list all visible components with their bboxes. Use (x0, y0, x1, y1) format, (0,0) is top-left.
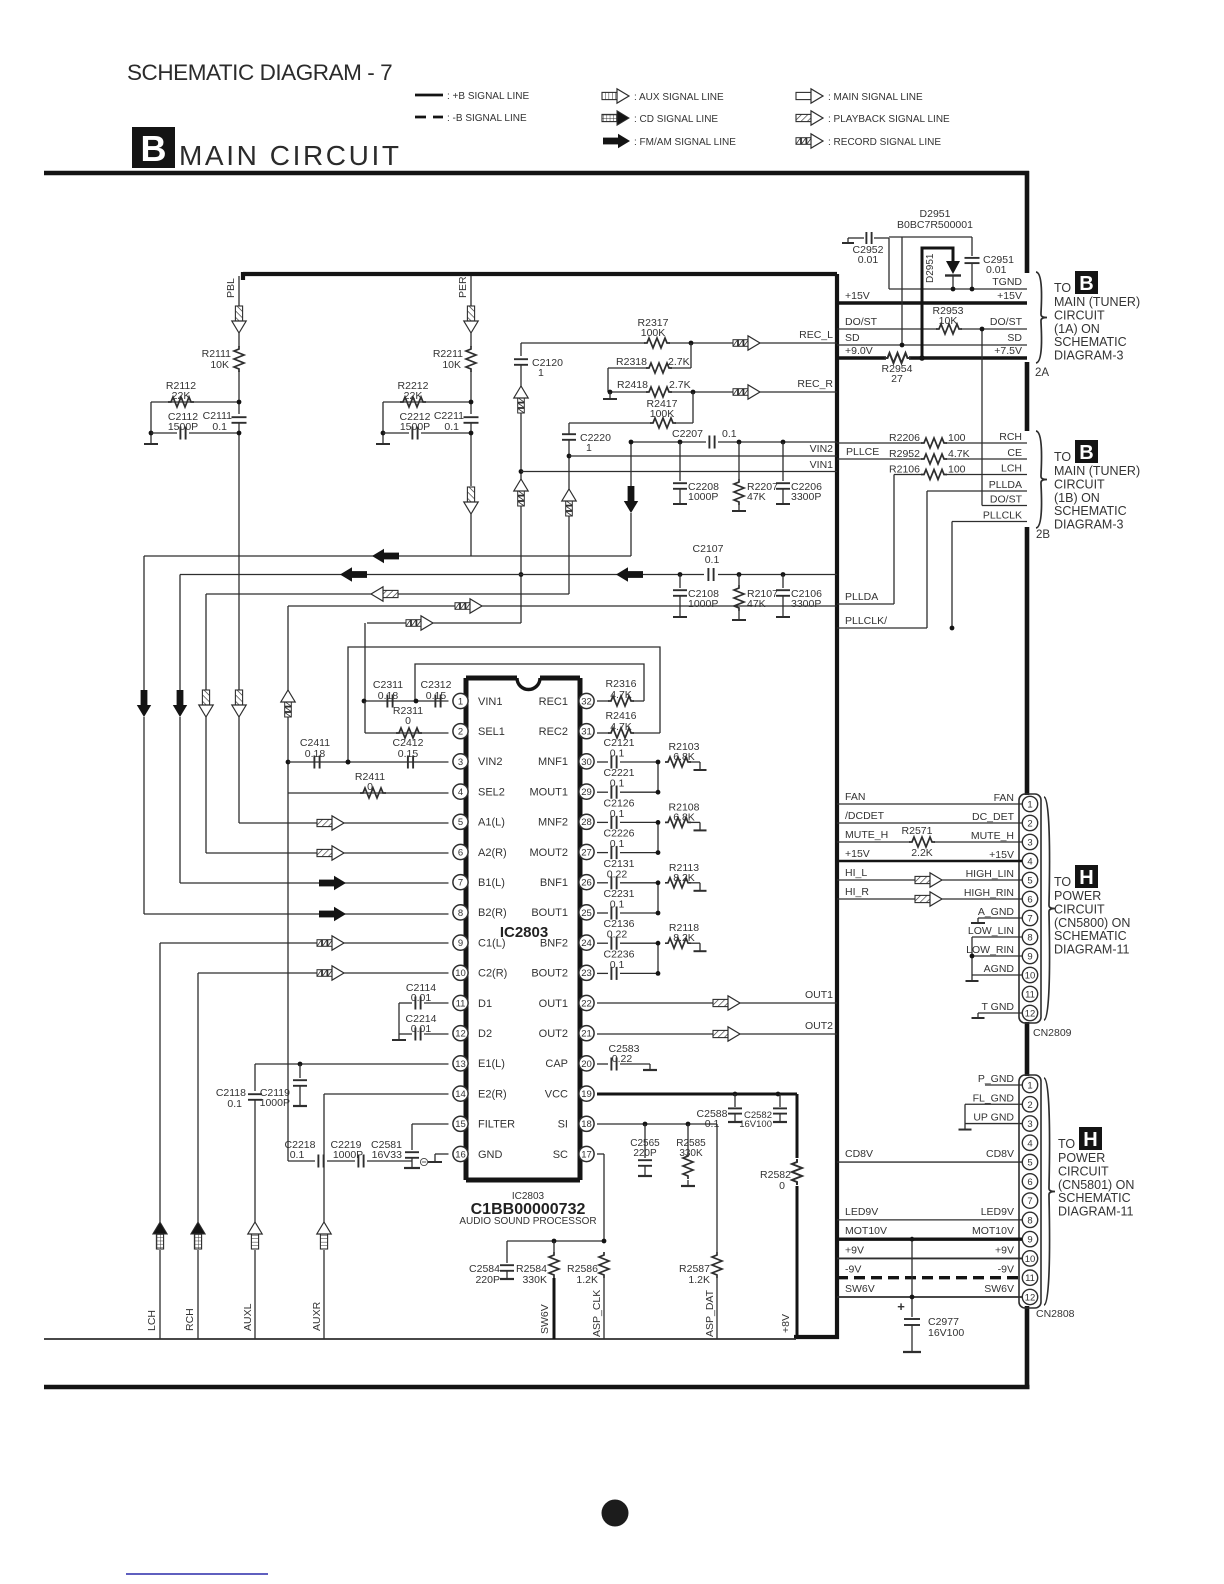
svg-text:SW6V: SW6V (984, 1283, 1014, 1295)
svg-text:R2952: R2952 (889, 448, 920, 460)
svg-text:9: 9 (1027, 952, 1032, 963)
svg-text:4.7K: 4.7K (948, 448, 970, 460)
svg-text:PLLDA: PLLDA (989, 479, 1022, 491)
svg-text:B: B (1079, 273, 1093, 295)
svg-text:DO/ST: DO/ST (845, 316, 878, 328)
svg-text:+7.5V: +7.5V (994, 345, 1022, 357)
svg-text:14: 14 (455, 1089, 466, 1100)
svg-text:2.7K: 2.7K (668, 356, 690, 368)
svg-text:18: 18 (581, 1119, 592, 1130)
svg-text:-9V: -9V (845, 1264, 861, 1276)
svg-text:3: 3 (1027, 1119, 1032, 1130)
svg-text:0.01: 0.01 (986, 264, 1007, 276)
svg-text:SCHEMATIC: SCHEMATIC (1054, 929, 1127, 943)
svg-text:1500P: 1500P (168, 421, 198, 433)
svg-text:1: 1 (586, 442, 592, 454)
svg-text:+15V: +15V (989, 849, 1014, 861)
svg-text:47K: 47K (747, 598, 766, 610)
svg-text:H: H (1083, 1129, 1097, 1151)
svg-text:17: 17 (581, 1149, 592, 1160)
svg-text:VIN2: VIN2 (810, 443, 834, 455)
svg-text:10: 10 (1025, 971, 1036, 982)
svg-text:10K: 10K (210, 359, 229, 371)
svg-text:10: 10 (1025, 1254, 1036, 1265)
svg-text:0: 0 (405, 715, 411, 727)
svg-text:0.1: 0.1 (290, 1149, 305, 1161)
svg-text:HI_L: HI_L (845, 867, 867, 879)
svg-text:ASP_CLK: ASP_CLK (591, 1290, 603, 1337)
svg-text:20: 20 (581, 1059, 592, 1070)
svg-text:100: 100 (948, 464, 966, 476)
svg-text:0.1: 0.1 (444, 421, 459, 433)
svg-text:BNF1: BNF1 (540, 877, 568, 889)
svg-text:22K: 22K (172, 390, 191, 402)
svg-text:TO: TO (1058, 1137, 1075, 1151)
svg-text:(1A) ON: (1A) ON (1054, 322, 1100, 336)
svg-text:PBL: PBL (225, 278, 237, 298)
svg-text:AGND: AGND (984, 963, 1015, 975)
svg-text:15: 15 (455, 1119, 466, 1130)
svg-text:16: 16 (455, 1149, 466, 1160)
svg-text:0.1: 0.1 (722, 428, 737, 440)
svg-text:SI: SI (558, 1119, 568, 1131)
svg-text:23: 23 (581, 968, 592, 979)
svg-text:31: 31 (581, 727, 592, 738)
svg-text:1: 1 (538, 367, 544, 379)
svg-text:MOT10V: MOT10V (972, 1225, 1014, 1237)
svg-text:/DCDET: /DCDET (845, 810, 885, 822)
svg-text:CN2809: CN2809 (1033, 1027, 1072, 1039)
svg-text:2A: 2A (1035, 367, 1049, 379)
svg-text:AUXL: AUXL (242, 1303, 254, 1331)
svg-text:0.01: 0.01 (411, 992, 432, 1004)
svg-text:0.18: 0.18 (305, 748, 326, 760)
svg-text:27: 27 (891, 373, 903, 385)
svg-text:0.1: 0.1 (610, 748, 625, 760)
svg-text:: MAIN SIGNAL LINE: : MAIN SIGNAL LINE (828, 92, 923, 103)
svg-text:220P: 220P (475, 1274, 500, 1286)
svg-text:PLLDA: PLLDA (845, 591, 878, 603)
svg-text:0.1: 0.1 (705, 554, 720, 566)
svg-text:SEL1: SEL1 (478, 726, 505, 738)
svg-text:330K: 330K (522, 1274, 547, 1286)
svg-text:10K: 10K (442, 359, 461, 371)
svg-text:DC_DET: DC_DET (972, 811, 1015, 823)
svg-text:MUTE_H: MUTE_H (845, 829, 888, 841)
svg-text:2.7K: 2.7K (669, 379, 691, 391)
svg-text:1: 1 (458, 696, 463, 707)
svg-text:BOUT2: BOUT2 (531, 968, 568, 980)
svg-text:POWER: POWER (1054, 889, 1101, 903)
svg-text:4: 4 (458, 787, 463, 798)
svg-text:R2106: R2106 (889, 464, 920, 476)
svg-text:LED9V: LED9V (845, 1206, 878, 1218)
svg-text:HIGH_RIN: HIGH_RIN (964, 887, 1014, 899)
svg-text:1000P: 1000P (333, 1149, 363, 1161)
svg-text:CE: CE (1007, 447, 1022, 459)
svg-text:2B: 2B (1036, 529, 1050, 541)
svg-text:CN2808: CN2808 (1036, 1308, 1075, 1320)
svg-text:C2207: C2207 (672, 428, 703, 440)
svg-text:1.2K: 1.2K (576, 1274, 598, 1286)
svg-text:PER: PER (457, 276, 469, 298)
svg-text:0.1: 0.1 (610, 959, 625, 971)
svg-text:RCH: RCH (184, 1308, 196, 1331)
svg-text:1.2K: 1.2K (688, 1274, 710, 1286)
svg-text:2.2K: 2.2K (911, 847, 933, 859)
svg-text:R2571: R2571 (902, 825, 933, 837)
svg-text:: FM/AM SIGNAL LINE: : FM/AM SIGNAL LINE (634, 137, 736, 148)
svg-text:LCH: LCH (146, 1310, 158, 1331)
svg-text:BNF2: BNF2 (540, 937, 568, 949)
svg-text:OUT2: OUT2 (805, 1020, 833, 1032)
svg-text:28: 28 (581, 817, 592, 828)
svg-text:SEL2: SEL2 (478, 786, 505, 798)
svg-text:REC1: REC1 (539, 696, 568, 708)
svg-text:0.1: 0.1 (610, 899, 625, 911)
svg-text:B: B (141, 128, 167, 169)
svg-text:32: 32 (581, 696, 592, 707)
svg-text:FL_GND: FL_GND (973, 1092, 1015, 1104)
svg-text:R2318: R2318 (616, 356, 647, 368)
svg-text:DIAGRAM-3: DIAGRAM-3 (1054, 518, 1124, 532)
svg-text:UP GND: UP GND (973, 1112, 1014, 1124)
svg-text:220P: 220P (633, 1148, 657, 1159)
svg-text:MAIN CIRCUIT: MAIN CIRCUIT (179, 140, 402, 171)
svg-text:FAN: FAN (994, 792, 1014, 804)
svg-text:CD8V: CD8V (845, 1148, 873, 1160)
svg-text:TO: TO (1054, 875, 1071, 889)
svg-text:PLLCLK/: PLLCLK/ (845, 615, 887, 627)
svg-text:CAP: CAP (545, 1058, 568, 1070)
svg-text:R2582: R2582 (760, 1169, 791, 1181)
svg-text:FILTER: FILTER (478, 1119, 515, 1131)
svg-text:SW6V: SW6V (845, 1283, 875, 1295)
svg-text:T GND: T GND (982, 1001, 1015, 1013)
svg-text:TGND: TGND (992, 276, 1022, 288)
svg-text:2: 2 (458, 727, 463, 738)
svg-text:DIAGRAM-3: DIAGRAM-3 (1054, 349, 1124, 363)
svg-text:+15V: +15V (997, 290, 1022, 302)
svg-text:1000P: 1000P (260, 1097, 290, 1109)
svg-text:MUTE_H: MUTE_H (971, 830, 1014, 842)
svg-text:SCHEMATIC: SCHEMATIC (1054, 335, 1127, 349)
svg-text:REC_R: REC_R (797, 378, 833, 390)
svg-text:P_GND: P_GND (978, 1073, 1015, 1085)
svg-text:0.01: 0.01 (858, 254, 879, 266)
svg-text:D2951: D2951 (925, 253, 936, 283)
svg-text:POWER: POWER (1058, 1151, 1105, 1165)
svg-text:B0BC7R500001: B0BC7R500001 (897, 219, 973, 231)
svg-text:1000P: 1000P (688, 491, 718, 503)
svg-text:+: + (897, 1299, 905, 1314)
svg-text:0.01: 0.01 (411, 1023, 432, 1035)
svg-text:C2220: C2220 (580, 432, 611, 444)
svg-text:SCHEMATIC: SCHEMATIC (1058, 1191, 1131, 1205)
svg-text:6.8K: 6.8K (673, 811, 695, 823)
svg-text:2: 2 (1027, 819, 1032, 830)
svg-text:GND: GND (478, 1149, 503, 1161)
svg-text:4: 4 (1027, 857, 1032, 868)
svg-text:13: 13 (455, 1059, 466, 1070)
svg-text:0: 0 (367, 781, 373, 793)
svg-text:AUXR: AUXR (311, 1301, 323, 1331)
svg-text:LCH: LCH (1001, 463, 1022, 475)
svg-text:25: 25 (581, 908, 592, 919)
svg-text:PLLCE: PLLCE (846, 446, 879, 458)
svg-text:: AUX SIGNAL LINE: : AUX SIGNAL LINE (634, 92, 724, 103)
svg-text:1: 1 (1027, 800, 1032, 811)
svg-text:+9V: +9V (995, 1244, 1014, 1256)
svg-text:24: 24 (581, 938, 592, 949)
svg-text:4.7K: 4.7K (610, 721, 632, 733)
svg-text:19: 19 (581, 1089, 592, 1100)
svg-text:27: 27 (581, 847, 592, 858)
svg-text:100K: 100K (641, 327, 666, 339)
svg-text:: PLAYBACK SIGNAL LINE: : PLAYBACK SIGNAL LINE (828, 114, 950, 125)
svg-text:VIN1: VIN1 (478, 696, 502, 708)
svg-text:9: 9 (458, 938, 463, 949)
svg-text:0.18: 0.18 (378, 690, 399, 702)
svg-text:11: 11 (456, 998, 466, 1009)
svg-text:8: 8 (1027, 933, 1032, 944)
svg-text:SC: SC (553, 1149, 568, 1161)
svg-text:D1: D1 (478, 998, 492, 1010)
svg-text:LED9V: LED9V (981, 1206, 1014, 1218)
svg-text:0.15: 0.15 (398, 748, 419, 760)
svg-text:MNF2: MNF2 (538, 817, 568, 829)
svg-text:2: 2 (1027, 1100, 1032, 1111)
svg-text:0.1: 0.1 (227, 1098, 242, 1110)
svg-text:12: 12 (1025, 1009, 1036, 1020)
svg-text:R2418: R2418 (617, 379, 648, 391)
svg-text:E2(R): E2(R) (478, 1088, 507, 1100)
svg-text:OUT1: OUT1 (539, 998, 568, 1010)
svg-text:6.8K: 6.8K (673, 751, 695, 763)
svg-text:DIAGRAM-11: DIAGRAM-11 (1058, 1205, 1134, 1219)
svg-text:: RECORD SIGNAL LINE: : RECORD SIGNAL LINE (828, 137, 941, 148)
svg-text:VIN1: VIN1 (810, 459, 834, 471)
svg-text:21: 21 (581, 1029, 592, 1040)
svg-text:A_GND: A_GND (978, 906, 1015, 918)
svg-text:3300P: 3300P (791, 598, 821, 610)
svg-text:6: 6 (1027, 1177, 1032, 1188)
svg-text:8.2K: 8.2K (673, 932, 695, 944)
svg-text:CIRCUIT: CIRCUIT (1054, 477, 1105, 491)
svg-text:7: 7 (458, 878, 463, 889)
svg-text:REC_L: REC_L (799, 329, 833, 341)
svg-text:CIRCUIT: CIRCUIT (1058, 1164, 1109, 1178)
svg-text:AUDIO SOUND PROCESSOR: AUDIO SOUND PROCESSOR (459, 1216, 596, 1227)
svg-text:3: 3 (458, 757, 463, 768)
svg-text:-9V: -9V (998, 1264, 1014, 1276)
svg-text:LOW_LIN: LOW_LIN (968, 925, 1014, 937)
svg-text:C2(R): C2(R) (478, 968, 507, 980)
svg-text:0: 0 (779, 1180, 785, 1192)
svg-text:11: 11 (1025, 1273, 1035, 1284)
svg-text:9: 9 (1027, 1235, 1032, 1246)
svg-text:0.1: 0.1 (212, 421, 227, 433)
svg-text:10: 10 (455, 968, 466, 979)
svg-text:DO/ST: DO/ST (990, 494, 1023, 506)
svg-text:OUT1: OUT1 (805, 989, 833, 1001)
svg-text:CD8V: CD8V (986, 1148, 1014, 1160)
svg-text:12: 12 (1025, 1292, 1036, 1303)
svg-text:ASP_DAT: ASP_DAT (704, 1289, 716, 1337)
svg-text:(1B) ON: (1B) ON (1054, 491, 1100, 505)
svg-text:DO/ST: DO/ST (990, 316, 1023, 328)
svg-text:5: 5 (1027, 1158, 1032, 1169)
svg-text:16V33: 16V33 (372, 1149, 403, 1161)
svg-text:: CD SIGNAL LINE: : CD SIGNAL LINE (634, 114, 718, 125)
svg-text:11: 11 (1025, 990, 1035, 1001)
svg-text:0.1: 0.1 (610, 808, 625, 820)
svg-text:4: 4 (1027, 1138, 1032, 1149)
svg-text:MNF1: MNF1 (538, 756, 568, 768)
svg-text:FAN: FAN (845, 791, 865, 803)
svg-text:+9.0V: +9.0V (845, 345, 873, 357)
svg-text:PLLCLK: PLLCLK (983, 510, 1022, 522)
svg-text:: +B SIGNAL LINE: : +B SIGNAL LINE (447, 91, 529, 102)
svg-text:5: 5 (1027, 876, 1032, 887)
svg-text:BOUT1: BOUT1 (531, 907, 568, 919)
svg-text:30: 30 (581, 757, 592, 768)
svg-text:47K: 47K (747, 491, 766, 503)
svg-text:+9V: +9V (845, 1244, 864, 1256)
svg-text:7: 7 (1027, 914, 1032, 925)
svg-text:16V100: 16V100 (739, 1119, 772, 1130)
svg-text:REC2: REC2 (539, 726, 568, 738)
svg-text:8: 8 (458, 908, 463, 919)
svg-text:: -B SIGNAL LINE: : -B SIGNAL LINE (447, 113, 527, 124)
svg-text:16V100: 16V100 (928, 1327, 964, 1339)
svg-text:7: 7 (1027, 1196, 1032, 1207)
svg-text:12: 12 (455, 1029, 466, 1040)
svg-text:330K: 330K (679, 1148, 703, 1159)
svg-text:MOUT2: MOUT2 (530, 847, 569, 859)
svg-text:22K: 22K (404, 390, 423, 402)
svg-text:SCHEMATIC DIAGRAM - 7: SCHEMATIC DIAGRAM - 7 (127, 60, 392, 85)
svg-text:6: 6 (1027, 895, 1032, 906)
svg-text:100: 100 (948, 432, 966, 444)
svg-text:+15V: +15V (845, 848, 870, 860)
svg-text:0.1: 0.1 (610, 778, 625, 790)
svg-text:VIN2: VIN2 (478, 756, 502, 768)
svg-text:8.2K: 8.2K (673, 872, 695, 884)
svg-text:0.22: 0.22 (607, 868, 628, 880)
svg-text:B1(L): B1(L) (478, 877, 505, 889)
svg-text:B: B (1079, 442, 1093, 464)
svg-text:0.15: 0.15 (426, 690, 447, 702)
svg-text:0.22: 0.22 (607, 929, 628, 941)
svg-text:1000P: 1000P (688, 598, 718, 610)
svg-text:RCH: RCH (999, 431, 1022, 443)
svg-text:1500P: 1500P (400, 421, 430, 433)
svg-text:MAIN (TUNER): MAIN (TUNER) (1054, 295, 1140, 309)
svg-text:SCHEMATIC: SCHEMATIC (1054, 504, 1127, 518)
svg-text:SD: SD (1007, 332, 1022, 344)
svg-text:6: 6 (458, 847, 463, 858)
svg-text:E1(L): E1(L) (478, 1058, 505, 1070)
svg-text:D2: D2 (478, 1028, 492, 1040)
svg-text:HI_R: HI_R (845, 886, 869, 898)
svg-text:(CN5801) ON: (CN5801) ON (1058, 1178, 1134, 1192)
svg-text:VCC: VCC (545, 1088, 568, 1100)
svg-text:+15V: +15V (845, 290, 870, 302)
svg-text:C2120: C2120 (532, 357, 563, 369)
svg-text:3: 3 (1027, 838, 1032, 849)
svg-text:TO: TO (1054, 281, 1071, 295)
svg-text:TO: TO (1054, 450, 1071, 464)
svg-text:CIRCUIT: CIRCUIT (1054, 902, 1105, 916)
svg-text:0.22: 0.22 (612, 1053, 633, 1065)
svg-text:3300P: 3300P (791, 491, 821, 503)
svg-text:A2(R): A2(R) (478, 847, 507, 859)
svg-text:0.1: 0.1 (610, 838, 625, 850)
svg-text:HIGH_LIN: HIGH_LIN (966, 868, 1014, 880)
svg-text:29: 29 (581, 787, 592, 798)
svg-text:26: 26 (581, 878, 592, 889)
svg-text:A1(L): A1(L) (478, 817, 505, 829)
svg-text:SD: SD (845, 332, 860, 344)
svg-text:R2206: R2206 (889, 432, 920, 444)
svg-text:8: 8 (1027, 1215, 1032, 1226)
svg-text:SW6V: SW6V (539, 1304, 551, 1334)
svg-text:CIRCUIT: CIRCUIT (1054, 308, 1105, 322)
svg-text:10K: 10K (939, 315, 958, 327)
svg-text:H: H (1079, 867, 1093, 889)
svg-text:C1(L): C1(L) (478, 937, 506, 949)
svg-text:OUT2: OUT2 (539, 1028, 568, 1040)
svg-text:MOT10V: MOT10V (845, 1225, 887, 1237)
svg-text:MOUT1: MOUT1 (530, 786, 569, 798)
svg-text:B2(R): B2(R) (478, 907, 507, 919)
svg-text:4.7K: 4.7K (610, 689, 632, 701)
svg-text:5: 5 (458, 817, 463, 828)
svg-text:(CN5800) ON: (CN5800) ON (1054, 916, 1130, 930)
svg-text:1: 1 (1027, 1081, 1032, 1092)
svg-text:+8V: +8V (780, 1314, 792, 1333)
svg-text:22: 22 (581, 998, 592, 1009)
svg-text:MAIN (TUNER): MAIN (TUNER) (1054, 464, 1140, 478)
svg-text:DIAGRAM-11: DIAGRAM-11 (1054, 943, 1130, 957)
